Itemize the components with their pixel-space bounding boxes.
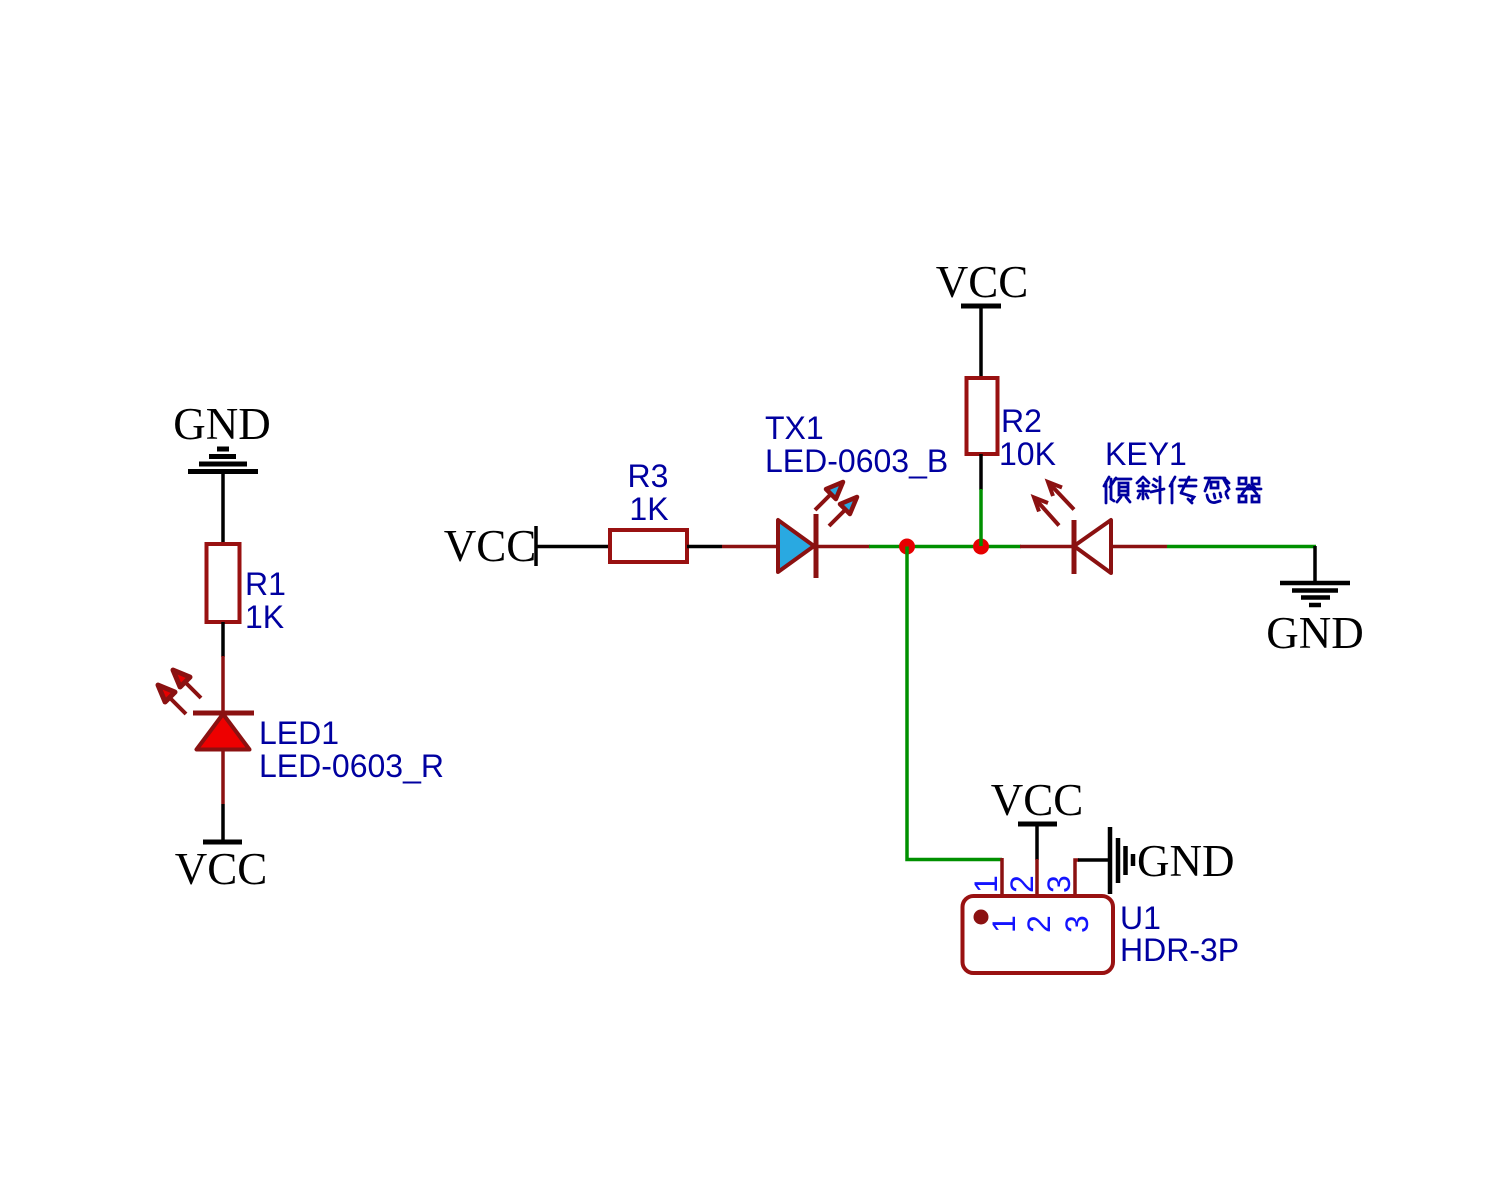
svg-text:LED-0603_B: LED-0603_B — [765, 443, 948, 479]
ground symbol (left, inverted) — [188, 449, 258, 472]
svg-text:LED1: LED1 — [259, 715, 339, 751]
svg-text:HDR-3P: HDR-3P — [1120, 932, 1239, 968]
svg-text:1: 1 — [968, 875, 1004, 893]
svg-text:2: 2 — [1021, 915, 1057, 933]
svg-text:1K: 1K — [629, 491, 668, 527]
svg-text:10K: 10K — [999, 436, 1056, 472]
svg-text:VCC: VCC — [991, 775, 1084, 825]
wire KEY1 to GND (green net) — [1167, 545, 1316, 549]
svg-text:LED-0603_R: LED-0603_R — [259, 748, 444, 784]
svg-text:1K: 1K — [245, 599, 284, 635]
wire R1 to LED1 — [221, 622, 225, 657]
svg-text:R2: R2 — [1001, 403, 1042, 439]
LED LED1 — [193, 713, 254, 750]
wire R2 to node B — [979, 454, 983, 490]
wire node B to KEY1 — [1020, 545, 1167, 549]
power flag VCC (left bottom) — [203, 840, 242, 845]
svg-text:3: 3 — [1059, 915, 1095, 933]
wire pin3 stub — [1075, 860, 1079, 897]
wire R3 to TX1 — [687, 545, 722, 549]
ground symbol (right) — [1313, 546, 1317, 583]
wire pin1 stub — [1000, 858, 1004, 897]
svg-text:2: 2 — [1004, 875, 1040, 893]
wire TX1 to node A (green net) — [869, 545, 1021, 549]
TX1 light arrows — [815, 482, 857, 526]
svg-text:VCC: VCC — [175, 844, 268, 894]
junction node A — [899, 539, 915, 555]
svg-text:R1: R1 — [245, 566, 286, 602]
svg-text:R3: R3 — [628, 458, 669, 494]
svg-text:U1: U1 — [1120, 900, 1161, 936]
svg-text:VCC: VCC — [936, 257, 1029, 307]
LED TX1 — [778, 514, 816, 578]
wire VCC to pin 2 — [1035, 824, 1039, 860]
wire pin3 to GND — [1078, 858, 1110, 862]
pin tick — [534, 526, 538, 566]
svg-text:1: 1 — [986, 915, 1022, 933]
junction node B — [973, 539, 989, 555]
label 倾斜传感器 (drawn strokes) — [1104, 477, 1261, 503]
wire VCC to R2 — [979, 306, 983, 379]
U1 pin1 mark dot — [974, 910, 989, 925]
resistor R1 — [207, 544, 240, 622]
svg-text:3: 3 — [1041, 875, 1077, 893]
wire LED1 to VCC — [221, 750, 225, 805]
ground symbol (U1, rotated) — [1110, 827, 1133, 894]
resistor R2 — [967, 378, 998, 454]
wire GND to R1 — [221, 472, 225, 546]
svg-text:TX1: TX1 — [765, 410, 824, 446]
svg-text:GND: GND — [1137, 836, 1235, 886]
diode KEY1 (tilt sensor) — [1074, 520, 1111, 574]
svg-text:GND: GND — [1266, 608, 1364, 658]
svg-text:VCC: VCC — [444, 521, 537, 571]
wire VCC to R3 — [536, 545, 611, 549]
svg-text:GND: GND — [173, 399, 271, 449]
connector U1 HDR-3P body — [963, 896, 1114, 973]
LED1 light arrows — [158, 670, 201, 714]
svg-text:KEY1: KEY1 — [1105, 436, 1187, 472]
wire node A down to U1 pin 1 — [907, 547, 1002, 860]
resistor R3 — [610, 530, 687, 562]
KEY1 arrows — [1034, 482, 1074, 526]
